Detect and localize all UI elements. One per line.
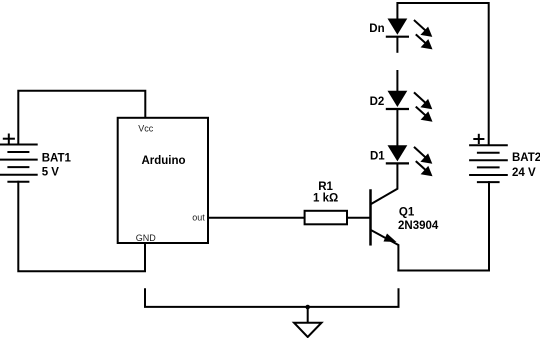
svg-text:Arduino: Arduino: [141, 155, 185, 167]
svg-text:D1: D1: [370, 151, 385, 163]
battery BAT2: [470, 145, 507, 182]
ground: [294, 323, 322, 337]
svg-text:BAT1: BAT1: [42, 153, 72, 165]
plus sign BAT1: [4, 135, 14, 143]
LED D2 emission arrows: [415, 93, 433, 122]
wire R1 to Q1 base: [347, 217, 371, 219]
svg-text:Dn: Dn: [369, 23, 384, 35]
svg-text:Q1: Q1: [399, 207, 415, 219]
LED D1: [387, 145, 408, 163]
transistor Q1 emitter arrowhead: [384, 234, 397, 243]
LED Dn: [387, 19, 408, 52]
LED D1 emission arrows: [415, 148, 433, 177]
svg-text:1 kΩ: 1 kΩ: [313, 193, 338, 205]
LED D2: [387, 91, 408, 146]
wire BAT1- down to bottom left rail: [18, 182, 145, 271]
svg-text:5 V: 5 V: [42, 167, 60, 179]
svg-text:BAT2: BAT2: [512, 152, 540, 164]
LED Dn emission arrows: [415, 21, 433, 50]
svg-text:2N3904: 2N3904: [398, 220, 439, 232]
transistor Q1 emitter: [372, 230, 399, 270]
ground rail wire: [145, 289, 399, 307]
svg-text:D2: D2: [370, 96, 385, 108]
resistor R1: [305, 211, 347, 225]
junction dot: [305, 305, 310, 310]
wire LED chain top to BAT2+: [397, 3, 488, 145]
battery BAT1: [0, 145, 37, 182]
plus sign BAT2: [474, 135, 483, 143]
Arduino U1 box: [118, 118, 208, 243]
svg-text:R1: R1: [318, 181, 333, 193]
wire gap segment to D2: [396, 71, 398, 91]
svg-text:out: out: [192, 213, 205, 223]
transistor Q1 base bar: [369, 191, 372, 245]
wire to ground symbol: [307, 307, 309, 322]
wire Arduino out to R1: [208, 217, 305, 219]
wire BAT1+ to Arduino Vcc: [18, 91, 145, 145]
svg-text:Vcc: Vcc: [138, 123, 154, 133]
svg-text:GND: GND: [136, 233, 157, 243]
wire emitter to BAT2-: [398, 182, 489, 270]
svg-text:24 V: 24 V: [512, 167, 536, 179]
transistor Q1 collector and wire to D1: [372, 164, 398, 203]
